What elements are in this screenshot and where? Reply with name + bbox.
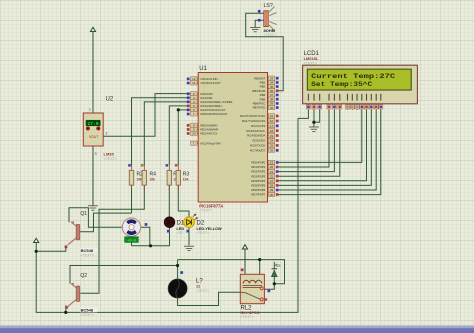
relay coil	[243, 280, 262, 283]
svg-text:RD1/PSP1: RD1/PSP1	[251, 165, 265, 169]
svg-text:BC548: BC548	[81, 248, 94, 253]
svg-text:40: 40	[270, 106, 274, 110]
ground speaker	[250, 27, 260, 31]
wire RD7 to LCD D7	[277, 110, 381, 195]
svg-text:RB7/PGD: RB7/PGD	[253, 106, 266, 110]
svg-text:17: 17	[270, 124, 274, 128]
svg-text:Current Temp:27C: Current Temp:27C	[311, 73, 395, 80]
svg-text:3: 3	[95, 152, 97, 156]
wire LCD VSS jog	[298, 110, 308, 118]
wire RD1 to LCD RS	[277, 110, 329, 167]
svg-text:<TEXT>: <TEXT>	[196, 289, 209, 293]
svg-text:U2: U2	[106, 97, 114, 103]
svg-text:LED-YELLOW: LED-YELLOW	[197, 227, 223, 231]
motor rpm display	[125, 237, 139, 243]
chip U1 PIC16F877A body	[198, 73, 267, 203]
wire U2 VOUT to RA0	[103, 94, 191, 137]
ground D2	[184, 246, 194, 250]
wire RD5 to LCD D5	[277, 110, 371, 185]
speaker LS?	[264, 11, 268, 27]
LCD pin stubs and probes	[308, 104, 380, 110]
wire RD6 to LCD D6	[277, 110, 376, 190]
svg-text:<TEXT>: <TEXT>	[264, 33, 277, 37]
transistor Q1	[68, 222, 77, 245]
wire RD2 to LCD RW	[277, 110, 334, 172]
svg-text:30: 30	[270, 193, 274, 197]
power +5V arrow above U2	[90, 27, 95, 31]
wire R2 to RA1	[132, 98, 191, 166]
svg-text:SS: SS	[276, 264, 281, 268]
junction motor node	[149, 244, 152, 247]
svg-text:8OHM: 8OHM	[264, 28, 276, 33]
svg-text:14: 14	[192, 81, 196, 85]
LCD screen	[307, 69, 412, 91]
wire LCD gnd stem	[313, 122, 315, 126]
transistor pin probes	[65, 246, 68, 249]
wire R3 to D2	[178, 185, 189, 217]
svg-text:VOUT: VOUT	[89, 135, 98, 139]
svg-text:R3: R3	[183, 172, 190, 178]
svg-text:RC0/T1OSO/T1CKI: RC0/T1OSO/T1CKI	[240, 114, 266, 118]
wire Q1 lower lead	[36, 246, 66, 252]
diode flyback	[272, 270, 278, 276]
svg-text:RD0/PSP0: RD0/PSP0	[251, 161, 265, 165]
LCD1 body	[303, 65, 418, 104]
wire U2 VCC vertical	[92, 32, 94, 114]
transistor Q2	[68, 284, 77, 307]
wire speaker low pin to ground	[255, 20, 264, 27]
svg-text:RD3/PSP3: RD3/PSP3	[251, 174, 265, 178]
resistor R1	[167, 170, 171, 185]
speaker pin probes	[258, 10, 261, 13]
svg-text:RC4/SDI/SDA: RC4/SDI/SDA	[247, 134, 265, 138]
svg-text:Q2: Q2	[80, 273, 87, 279]
svg-text:19: 19	[270, 161, 274, 165]
wire lamp to relay pole	[178, 292, 241, 305]
wire Q2 lower lead	[65, 305, 67, 312]
svg-text:16: 16	[270, 119, 274, 123]
chip U1 left pins	[191, 79, 198, 143]
resistor top probes	[128, 164, 130, 166]
svg-text:MCLR/Vpp/THV: MCLR/Vpp/THV	[200, 141, 221, 145]
svg-text:10k: 10k	[150, 178, 156, 182]
svg-text:2: 2	[106, 132, 108, 136]
svg-text:<TEXT>: <TEXT>	[81, 313, 94, 317]
svg-text:RC6/TX/CK: RC6/TX/CK	[250, 144, 265, 148]
svg-text:OSC2/CLKOUT: OSC2/CLKOUT	[200, 81, 221, 85]
bottom window strip	[0, 326, 474, 329]
junction RA4 node	[177, 108, 180, 111]
svg-text:U1: U1	[199, 66, 207, 72]
svg-text:<TEXT>: <TEXT>	[241, 315, 254, 319]
svg-text:RC2/CCP1: RC2/CCP1	[251, 124, 266, 128]
wire bottom supply rail	[36, 118, 298, 312]
svg-text:LS?: LS?	[264, 3, 273, 9]
LCD pin name smudges	[308, 94, 380, 101]
wire motor node to D1 bottom	[132, 227, 170, 246]
svg-text:26: 26	[270, 149, 274, 153]
wire LCD VDD down	[313, 110, 315, 122]
wire R3 to RA4	[178, 110, 191, 166]
power +5V arrow relay coil	[242, 245, 247, 249]
sensor U2 buttons	[86, 127, 90, 131]
wire diode to relay contact	[265, 284, 275, 290]
svg-text:LED: LED	[177, 227, 185, 231]
svg-text:RA5/AN4/SS/C2OUT: RA5/AN4/SS/C2OUT	[200, 112, 228, 116]
resistor R4	[142, 170, 146, 185]
svg-text:23: 23	[270, 134, 274, 138]
wire Q1 emitter to motor	[69, 208, 123, 228]
svg-text:Set Temp:35^C: Set Temp:35^C	[311, 80, 372, 88]
ground U2	[88, 206, 98, 210]
wire Q2 emitter rail	[70, 266, 178, 284]
svg-text:10k: 10k	[137, 178, 143, 182]
wire D2 to ground	[188, 227, 190, 245]
svg-text:RC1/T1OSI/CCP2: RC1/T1OSI/CCP2	[242, 119, 266, 123]
svg-text:LM016L: LM016L	[304, 56, 319, 61]
svg-text:15: 15	[270, 114, 274, 118]
junction LCD VDD-VEE	[312, 121, 315, 124]
wire rail to diode anode	[178, 260, 285, 284]
svg-text:27: 27	[270, 179, 274, 183]
lamp L?	[168, 279, 187, 298]
svg-text:<TEXT>: <TEXT>	[81, 254, 94, 258]
wire diode cathode stub	[273, 262, 275, 269]
svg-text:<TEXT>: <TEXT>	[199, 209, 212, 213]
svg-text:<TEXT>: <TEXT>	[104, 157, 117, 161]
svg-text:RD5/PSP5: RD5/PSP5	[251, 184, 265, 188]
svg-text:RD6/PSP6: RD6/PSP6	[251, 188, 265, 192]
svg-text:RC7/RX/DT: RC7/RX/DT	[250, 148, 265, 152]
svg-text:LM35: LM35	[104, 151, 115, 156]
relay RL2 body	[240, 274, 264, 303]
wire R2 bottom	[131, 185, 133, 213]
svg-text:21: 21	[270, 170, 274, 174]
power +5V arrow left rail	[34, 238, 39, 242]
svg-text:29: 29	[270, 188, 274, 192]
wire R4 to RA2	[144, 102, 191, 166]
svg-text:10: 10	[192, 132, 196, 136]
svg-text:<TEXT>: <TEXT>	[304, 62, 317, 66]
wire R1 to RA3	[169, 106, 191, 166]
wire R2 to Q1 base	[80, 213, 132, 232]
svg-text:RE2/AN7/CS: RE2/AN7/CS	[200, 132, 217, 136]
motor	[122, 218, 140, 236]
svg-text:RD4/PSP4: RD4/PSP4	[251, 179, 265, 183]
chip U1 right pins	[268, 78, 275, 194]
wire motor bottom stub	[131, 236, 133, 246]
svg-text:RC5/SDO: RC5/SDO	[252, 139, 266, 143]
wire relay coil left to VCC arrow	[244, 249, 246, 274]
resistor R2	[129, 170, 133, 185]
LED D1 (red, off)	[164, 217, 175, 228]
svg-text:BC548: BC548	[81, 308, 94, 313]
svg-text:<TEXT>: <TEXT>	[197, 231, 210, 235]
resistor R3	[176, 170, 180, 185]
svg-text:28: 28	[270, 184, 274, 188]
svg-text:10k: 10k	[183, 178, 189, 182]
wire R4 to Q2 base	[80, 185, 144, 293]
motor probe	[145, 223, 148, 226]
wire speaker to RB3	[246, 13, 284, 91]
wire RD0 to LCD D3	[277, 110, 362, 162]
svg-text:24: 24	[270, 139, 274, 143]
svg-text:<TE: <TE	[177, 231, 184, 235]
svg-text:27.0: 27.0	[87, 121, 98, 127]
junction diode anode	[273, 282, 276, 285]
svg-text:18: 18	[270, 129, 274, 133]
svg-text:+0.0: +0.0	[127, 239, 136, 243]
svg-text:R4: R4	[150, 172, 157, 178]
relay switch	[240, 291, 245, 293]
svg-text:D2: D2	[197, 221, 205, 227]
wire U2 pin3 to ground	[92, 146, 94, 206]
LED D2 (yellow, on)	[184, 217, 195, 228]
wire motor right down	[141, 227, 150, 246]
svg-text:25: 25	[270, 144, 274, 148]
junction lamp / Q2 rail	[176, 264, 179, 267]
junction bottom rail / Q2 base	[64, 311, 67, 314]
wire RD3 to LCD E	[277, 110, 340, 176]
wire LCD VEE jog	[314, 110, 320, 122]
wire RD4 to LCD D4	[277, 110, 366, 181]
wire relay coil right riser	[259, 260, 261, 275]
svg-text:Q1: Q1	[80, 211, 87, 217]
ground LCD	[309, 127, 319, 131]
wire diode anode stem	[273, 277, 275, 284]
junction left rail / Q1 base	[35, 250, 38, 253]
svg-text:1: 1	[89, 108, 91, 112]
junction coil right / rail	[258, 258, 261, 261]
wire R1 to D1	[168, 185, 170, 217]
svg-text:RD2/PSP2: RD2/PSP2	[251, 170, 265, 174]
svg-text:22: 22	[270, 174, 274, 178]
svg-text:RD7/PSP7: RD7/PSP7	[251, 193, 265, 197]
svg-text:20: 20	[270, 165, 274, 169]
sensor U2 LM35 body	[83, 113, 103, 146]
wire lamp top riser	[177, 260, 179, 279]
svg-text:RC3/SCK/SCL: RC3/SCK/SCL	[246, 129, 265, 133]
